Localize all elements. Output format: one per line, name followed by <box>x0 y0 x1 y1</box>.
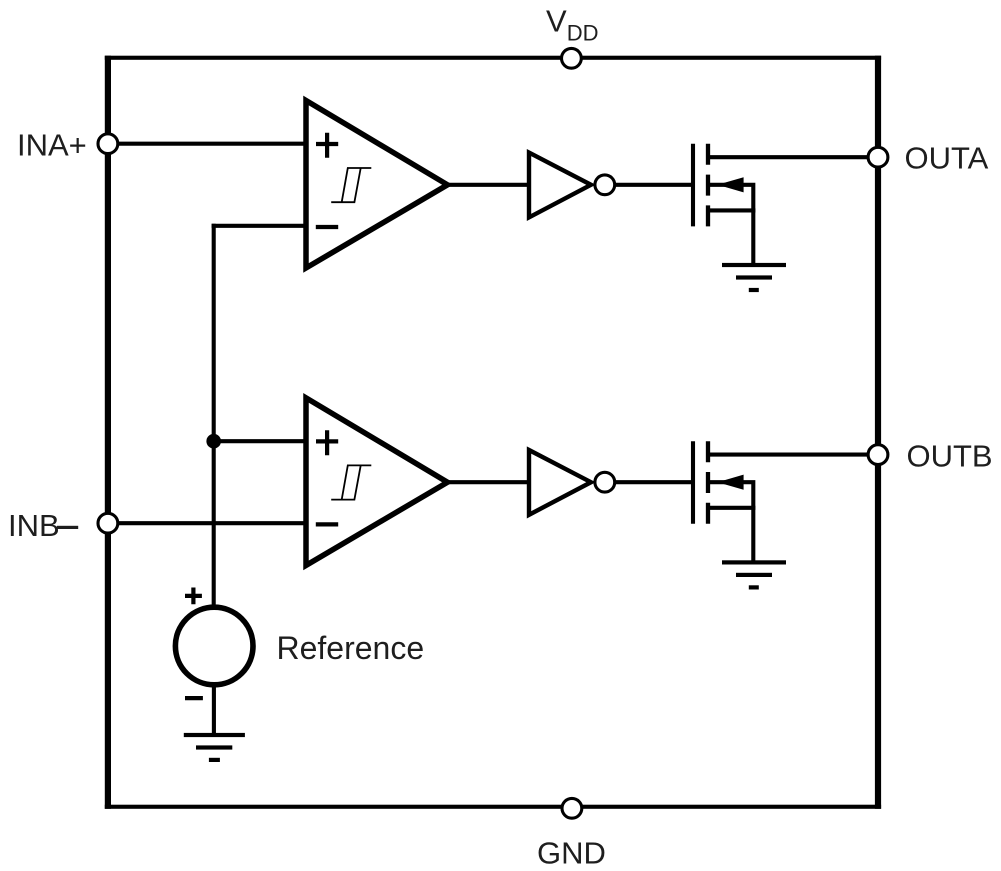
package outline top edge (VDD rail) <box>105 56 881 60</box>
terminal OUTA <box>868 147 888 167</box>
package outline bottom edge (GND rail) <box>105 805 881 809</box>
terminal INB- <box>98 513 118 533</box>
package outline right edge <box>875 56 881 809</box>
svg-text:Reference: Reference <box>277 630 425 666</box>
wire Q1 source <box>708 208 755 212</box>
wire INA+ to comparator U1A + input <box>111 142 307 146</box>
U1A - input sign <box>316 225 338 229</box>
U1A + input sign <box>316 133 338 158</box>
wire node REF to comparator U1B + input <box>212 439 307 443</box>
package outline left edge <box>105 56 111 809</box>
transistor Q1 gate bar <box>691 144 695 227</box>
terminal INA+ <box>98 134 118 154</box>
svg-text:OUTB: OUTB <box>907 439 993 474</box>
wire Q2 body to ground <box>710 482 753 561</box>
buffer A inverting bubble <box>595 175 615 195</box>
wire Q2 source <box>708 506 755 510</box>
reference voltage source V1 <box>175 607 253 685</box>
wire Q1 drain to OUTA <box>708 155 878 159</box>
wire INB- to comparator U1B - input <box>111 521 307 525</box>
transistor Q1 body arrow <box>718 177 744 192</box>
transistor Q2 channel segments <box>706 441 710 524</box>
transistor Q2 gate bar <box>691 441 695 524</box>
V1 + polarity sign <box>185 588 202 605</box>
wire U1B output to buffer B <box>449 480 530 484</box>
wire U1A output to buffer A <box>449 183 530 187</box>
svg-text:GND: GND <box>537 836 606 871</box>
buffer B body <box>529 450 591 515</box>
wire buffer A to Q1 gate <box>613 183 693 187</box>
wire U1A - input <box>212 224 307 228</box>
U1B + input sign <box>316 430 338 455</box>
comparator U1B body <box>306 398 448 566</box>
V1 - polarity sign <box>185 696 203 700</box>
wire reference source to ground <box>212 684 216 736</box>
terminal VDD <box>562 48 582 68</box>
node REF junction dot <box>206 434 221 449</box>
wire Q1 body to ground <box>710 185 753 264</box>
U1B hysteresis symbol <box>331 465 371 499</box>
transistor Q2 body arrow <box>718 475 744 490</box>
ground for V1 <box>184 733 245 762</box>
svg-text:INB: INB <box>8 508 60 543</box>
buffer A body <box>529 153 591 218</box>
U1A hysteresis symbol <box>331 168 371 202</box>
terminal OUTB <box>868 445 888 465</box>
wire reference vertical net <box>212 224 216 609</box>
buffer B inverting bubble <box>595 472 615 492</box>
wire Q2 drain to OUTB <box>708 453 878 457</box>
ground for Q1 <box>722 263 786 292</box>
svg-text:INA+: INA+ <box>17 128 87 163</box>
ground for Q2 <box>722 560 786 589</box>
U1B - input sign <box>316 522 338 526</box>
transistor Q1 channel segments <box>706 144 710 227</box>
comparator U1A body <box>306 101 448 269</box>
svg-text:OUTA: OUTA <box>905 141 989 176</box>
terminal GND <box>562 798 582 818</box>
wire buffer B to Q2 gate <box>613 480 693 484</box>
